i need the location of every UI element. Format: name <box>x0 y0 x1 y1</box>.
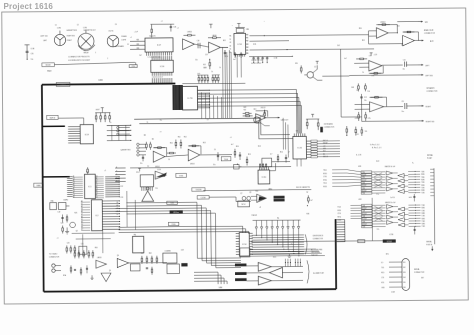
wire U9a inputs <box>369 30 377 32</box>
svg-text:KB1: KB1 <box>136 39 139 41</box>
svg-text:TXD0: TXD0 <box>323 170 327 172</box>
svg-text:10k: 10k <box>367 91 370 93</box>
svg-text:LM324: LM324 <box>190 163 195 165</box>
svg-text:1k: 1k <box>110 122 112 124</box>
transistor Q4 <box>70 222 76 228</box>
svg-text:C3: C3 <box>115 24 117 26</box>
svg-text:T?: T? <box>160 132 162 134</box>
buffer triangle B2 <box>269 267 282 278</box>
ic IC7B pin comb <box>173 85 183 110</box>
svg-text:NC: NC <box>323 154 325 156</box>
wire cassette verticals <box>282 118 284 150</box>
wire long net A <box>134 118 290 136</box>
svg-text:T2005: T2005 <box>224 159 228 161</box>
wire analogue net AUX <box>250 49 374 50</box>
wire analogue net mid <box>249 40 288 42</box>
ic IC1 CPU <box>84 174 95 198</box>
svg-text:RIGHT SIG: RIGHT SIG <box>67 35 76 37</box>
svg-text:LIGHT: LIGHT <box>121 39 126 41</box>
svg-text:R, Pins 2, 4, 6: R, Pins 2, 4, 6 <box>372 147 382 149</box>
svg-text:C39: C39 <box>225 56 228 58</box>
wire U9b input <box>369 43 403 45</box>
svg-text:D2: D2 <box>96 192 98 194</box>
capacitor C12 <box>360 94 362 102</box>
wire U9a feedback <box>376 24 397 33</box>
svg-text:R25: R25 <box>74 212 77 214</box>
wire serial right nets <box>408 170 420 172</box>
transistor Q2 circuit <box>300 65 302 73</box>
wire inter-block vertical <box>371 198 373 241</box>
svg-text:CONNECTOR: CONNECTOR <box>414 272 425 274</box>
svg-text:+ 1uF: + 1uF <box>134 31 138 33</box>
svg-text:R12: R12 <box>184 136 187 138</box>
svg-text:IC10: IC10 <box>136 172 139 174</box>
node AT05 label dark <box>170 210 183 213</box>
svg-text:C37: C37 <box>205 54 208 56</box>
connector J1 left right <box>54 34 65 45</box>
resistor row above IC30 <box>259 163 260 168</box>
wire W3 out <box>129 262 167 264</box>
svg-text:R2B5: R2B5 <box>421 190 425 192</box>
wire U5 feedback <box>256 111 268 117</box>
svg-text:RST: RST <box>323 151 326 153</box>
svg-text:4011: 4011 <box>358 166 361 168</box>
wire AUX output with arrow <box>418 40 424 42</box>
wire video verticals <box>126 191 128 227</box>
svg-text:CONNECTOR: CONNECTOR <box>324 127 335 129</box>
svg-text:T1B5: T1B5 <box>421 171 424 173</box>
svg-text:RXD0: RXD0 <box>323 173 327 175</box>
wire left audio out <box>382 64 403 66</box>
resistor R26 top <box>87 167 89 174</box>
svg-text:D3: D3 <box>73 194 75 196</box>
ic IC7B <box>182 86 197 110</box>
wire U9c feedback below <box>369 66 383 74</box>
svg-text:10k: 10k <box>365 131 368 133</box>
svg-text:C4: C4 <box>168 159 170 161</box>
svg-text:LM324: LM324 <box>256 123 261 125</box>
svg-text:T2B5: T2B5 <box>421 187 424 189</box>
svg-text:CS: CS <box>116 208 118 210</box>
svg-text:R18: R18 <box>258 146 261 148</box>
wire IC30 right <box>270 163 276 171</box>
svg-text:IC.7B: IC.7B <box>187 98 193 100</box>
wire C-U2B6 to comparator <box>209 197 251 202</box>
svg-text:CK: CK <box>230 42 232 44</box>
svg-text:LM318: LM318 <box>97 257 102 259</box>
svg-text:DCD1: DCD1 <box>338 220 342 222</box>
svg-text:4u7: 4u7 <box>233 59 236 61</box>
capacitor C40 <box>234 52 236 58</box>
svg-text:CONNECTOR: CONNECTOR <box>424 33 436 35</box>
resistor R11 <box>175 140 177 149</box>
svg-text:LEFT: LEFT <box>425 65 429 67</box>
capacitor C20 <box>62 215 64 223</box>
svg-text:C1: C1 <box>55 25 57 27</box>
node IC16 pin label boxes <box>311 140 317 142</box>
svg-text:+5: +5 <box>104 170 106 172</box>
ic IC19 <box>80 125 93 144</box>
capacitor row C30-C33 <box>249 55 292 57</box>
ic serial driver input labels <box>361 171 372 173</box>
svg-text:1k: 1k <box>211 71 213 73</box>
svg-text:4u7 4u7 4u7 4u7: 4u7 4u7 4u7 4u7 <box>251 63 261 65</box>
svg-text:10u: 10u <box>140 163 143 165</box>
node SC7002 label <box>383 239 396 242</box>
wire IC7B right fan with dots <box>197 90 210 109</box>
svg-text:C2: C2 <box>77 24 79 26</box>
node DATA label <box>34 183 44 187</box>
svg-text:T1B5: T1B5 <box>422 215 425 217</box>
svg-text:Project 1616: Project 1616 <box>4 2 54 11</box>
svg-text:S/BUS: S/BUS <box>61 84 67 86</box>
svg-text:C1+: C1+ <box>376 194 379 196</box>
capacitor C5 <box>217 152 219 160</box>
svg-text:R8: R8 <box>144 135 146 137</box>
svg-text:LEFT SIG: LEFT SIG <box>40 36 48 38</box>
wire bus drops to cassette nets <box>200 92 202 118</box>
svg-text:+: + <box>264 21 265 23</box>
svg-text:R2B5: R2B5 <box>422 223 426 225</box>
svg-text:D-USER PORT: D-USER PORT <box>313 273 324 275</box>
wire C394 stub <box>135 62 137 64</box>
svg-text:R70: R70 <box>386 254 389 256</box>
resistor R16 <box>277 154 279 162</box>
svg-text:C24: C24 <box>67 242 70 244</box>
svg-text:R1B5: R1B5 <box>422 218 426 220</box>
svg-text:R2B5: R2B5 <box>421 179 425 181</box>
resistor R20 <box>306 119 308 129</box>
svg-text:VS: VS <box>116 202 118 204</box>
capacitor C38 coupling <box>197 43 199 48</box>
svg-text:SK3: SK3 <box>403 272 406 274</box>
node S/BUS label <box>56 82 70 86</box>
svg-text:T2335: T2335 <box>179 175 183 177</box>
svg-text:Q6: Q6 <box>117 255 119 257</box>
svg-text:CENTRONICS: CENTRONICS <box>313 235 324 237</box>
resistor R44 <box>365 83 367 91</box>
svg-text:4u7: 4u7 <box>344 58 347 60</box>
wire A1 junctions <box>194 44 208 47</box>
svg-text:SK7: SK7 <box>421 277 424 279</box>
svg-text:LM324: LM324 <box>155 166 160 168</box>
svg-text:LOOKING INTO SOCKET: LOOKING INTO SOCKET <box>68 60 91 62</box>
svg-text:C4: C4 <box>147 166 149 168</box>
resistor R46 <box>365 112 367 121</box>
svg-text:RTS1: RTS1 <box>338 216 342 218</box>
ic IC31 <box>234 33 246 54</box>
op-amp U3b <box>188 149 200 161</box>
resistor R45 <box>358 112 360 121</box>
node T4805 label <box>167 201 178 204</box>
wire U3a feedback <box>153 148 167 157</box>
svg-text:10u: 10u <box>402 68 405 70</box>
svg-text:SK4: SK4 <box>403 277 406 279</box>
svg-text:GROUNDED: GROUNDED <box>311 252 321 254</box>
svg-text:1k: 1k <box>219 67 221 69</box>
svg-text:+: + <box>232 25 233 27</box>
ic PAL box <box>132 236 143 253</box>
svg-text:220: 220 <box>204 67 207 69</box>
capacitor C41 <box>240 52 242 58</box>
svg-text:R14: R14 <box>236 146 239 148</box>
svg-text:R31: R31 <box>223 40 226 42</box>
svg-text:R61: R61 <box>141 253 144 255</box>
svg-text:R50: R50 <box>359 28 362 30</box>
ic IC16 <box>293 136 307 159</box>
svg-text:T4805: T4805 <box>170 203 174 205</box>
svg-text:4x14: 4x14 <box>409 197 412 199</box>
svg-text:T1B5: T1B5 <box>421 193 424 195</box>
bracket user port <box>307 260 309 283</box>
svg-text:LM386: LM386 <box>212 35 217 37</box>
svg-text:ANALOGUE: ANALOGUE <box>424 29 434 32</box>
op-amp comparator U11 <box>257 194 267 202</box>
connector cassette pins <box>118 126 129 128</box>
diode matrix columns <box>255 220 257 226</box>
op-amp W3 <box>117 258 129 267</box>
svg-text:T2B5: T2B5 <box>422 221 425 223</box>
svg-text:MODE: MODE <box>46 65 52 67</box>
svg-text:D0: D0 <box>96 188 98 190</box>
svg-text:C30 C31 C32 C33: C30 C31 C32 C33 <box>251 60 262 62</box>
svg-text:10u: 10u <box>402 111 405 113</box>
capacitor C39 <box>224 50 226 57</box>
connector J3 keyboard <box>107 35 119 47</box>
op-amp U9c <box>369 60 382 71</box>
ic serial driver input labels <box>361 204 372 206</box>
connector video jacks <box>52 264 55 267</box>
svg-text:D4: D4 <box>81 208 83 210</box>
resistor R32 <box>308 195 310 203</box>
wire IC1 right nets <box>105 176 120 197</box>
svg-text:4011: 4011 <box>358 199 361 201</box>
svg-text:GND: GND <box>381 287 384 289</box>
resistor R9 <box>150 142 152 150</box>
wire speaker vertical <box>340 49 343 117</box>
svg-text:R26: R26 <box>86 171 89 173</box>
node C-U2B6 label <box>197 196 209 200</box>
wire rs232 nets into blocks <box>347 170 361 172</box>
svg-text:10u: 10u <box>155 188 158 190</box>
wire IC17 left pins <box>130 41 145 49</box>
svg-text:IC?: IC? <box>270 154 272 156</box>
ic IC14 <box>239 232 249 256</box>
svg-text:D0: D0 <box>96 176 98 178</box>
wire video lower nets <box>119 226 243 234</box>
wire IC16 bottom <box>296 159 298 166</box>
wire RIGHT arrow <box>407 105 419 107</box>
capacitor C3 <box>142 155 144 161</box>
svg-text:LM324: LM324 <box>187 31 192 33</box>
capacitor serial C21 <box>413 194 415 201</box>
svg-text:RIGHT: RIGHT <box>426 106 431 108</box>
wire A2 output <box>220 46 228 48</box>
svg-text:OUT B: OUT B <box>108 31 113 33</box>
wire LEFT SIG arrow <box>349 74 418 77</box>
svg-text:C23: C23 <box>120 197 123 199</box>
svg-text:Q8: Q8 <box>249 192 251 194</box>
svg-text:R19: R19 <box>254 109 257 111</box>
svg-text:CONNECTOR: CONNECTOR <box>313 238 324 240</box>
svg-text:C22: C22 <box>120 186 123 188</box>
node C394 label <box>129 65 137 68</box>
wire cpu vertical drops <box>82 234 84 256</box>
wire U3b feedback <box>188 146 201 155</box>
svg-text:74LS273: 74LS273 <box>149 36 156 38</box>
wire cpu bottom nets <box>72 232 115 234</box>
wire U3a to U3b <box>165 155 188 157</box>
svg-text:RTS: RTS <box>381 282 384 284</box>
svg-text:POINT: POINT <box>427 158 432 160</box>
ic serial driver gates <box>386 171 393 175</box>
svg-text:C38: C38 <box>197 40 200 42</box>
wire RIGHT SIG net <box>362 120 419 122</box>
svg-text:4x1k: 4x1k <box>197 73 200 75</box>
wire cassette out arrow <box>266 117 276 119</box>
svg-text:TX: TX <box>229 39 231 41</box>
svg-text:RXD1: RXD1 <box>337 210 341 212</box>
transistor T5 <box>242 196 246 200</box>
svg-text:D4: D4 <box>81 224 83 226</box>
svg-text:R62: R62 <box>149 253 152 255</box>
supply tick T2 <box>238 23 240 27</box>
svg-text:CTS1: CTS1 <box>338 213 342 215</box>
resistor R14 <box>234 149 236 158</box>
wire long net C <box>130 167 291 168</box>
ground G2 <box>66 227 68 231</box>
resistor R10 <box>167 152 176 154</box>
wire rail +5 keyboard <box>306 118 319 120</box>
svg-text:4u7: 4u7 <box>231 144 234 146</box>
transistor V3 buffer <box>142 191 154 202</box>
svg-text:RX: RX <box>229 36 231 38</box>
transistor W2 <box>101 273 111 282</box>
svg-text:LEFT SIG: LEFT SIG <box>425 75 433 77</box>
capacitor C36 <box>170 24 172 31</box>
crystal Y2 on top <box>236 28 244 32</box>
ic subcarrier box <box>167 264 179 274</box>
resistor R30 feedback <box>183 34 195 36</box>
svg-text:To Pins 3, 4, 6: To Pins 3, 4, 6 <box>370 144 380 146</box>
wire thick bottom <box>44 289 336 292</box>
video caps cluster <box>66 245 68 253</box>
ic serial driver gates <box>386 205 393 209</box>
svg-text:D2: D2 <box>96 180 98 182</box>
ic IC18 <box>151 60 174 72</box>
wire serial port arrow down <box>431 246 433 249</box>
svg-text:R22: R22 <box>244 107 247 109</box>
svg-text:SK6: SK6 <box>403 287 406 289</box>
wire audio thin net <box>182 82 245 85</box>
svg-text:4.7k: 4.7k <box>368 118 371 120</box>
op-amp U3a <box>153 151 165 162</box>
wire thick branch to IC19 <box>42 125 65 127</box>
wire IC31 down nets <box>236 57 238 78</box>
wire thick bus top S/BUS <box>42 84 175 85</box>
svg-text:R43: R43 <box>351 87 354 89</box>
wire crossing nets <box>374 173 382 177</box>
svg-text:T1B5: T1B5 <box>422 226 425 228</box>
svg-text:10k: 10k <box>401 45 404 47</box>
svg-text:4.43: 4.43 <box>181 249 184 251</box>
svg-text:D5: D5 <box>96 197 98 199</box>
svg-text:D6: D6 <box>73 186 75 188</box>
wire grid IC21 area <box>107 125 132 142</box>
svg-text:R35: R35 <box>295 63 298 65</box>
svg-text:KB CLK: KB CLK <box>323 140 328 142</box>
connector centronics comb <box>337 220 345 242</box>
connector cassette jack <box>137 143 139 145</box>
node TAPE B label <box>47 115 59 119</box>
wire U9b feedback <box>403 32 419 41</box>
svg-text:C394: C394 <box>131 66 135 68</box>
node TCK32B6 label <box>192 188 205 192</box>
resistor bank video <box>74 250 76 258</box>
op-amp A2 <box>209 42 221 53</box>
svg-text:R1B5: R1B5 <box>421 185 425 187</box>
svg-text:10u: 10u <box>31 59 34 61</box>
svg-text:KB3: KB3 <box>137 48 140 50</box>
resistor R37 <box>209 59 211 69</box>
ic IC2 ROM <box>91 200 102 231</box>
svg-text:SPEAKER: SPEAKER <box>426 87 435 90</box>
svg-text:D1: D1 <box>230 49 232 51</box>
svg-text:D1: D1 <box>81 203 83 205</box>
resistor R21 <box>317 119 319 130</box>
wire MIC output with arrow <box>388 32 397 34</box>
op-amp U9a <box>376 28 388 39</box>
svg-text:R16: R16 <box>280 152 283 154</box>
svg-text:SK2: SK2 <box>403 267 406 269</box>
svg-text:+5: +5 <box>298 252 300 254</box>
svg-text:1uF 16: 1uF 16 <box>390 197 395 199</box>
svg-text:TCK32B6: TCK32B6 <box>195 189 201 191</box>
capacitor C10 <box>403 62 405 67</box>
svg-text:R1B5: R1B5 <box>421 174 425 176</box>
svg-text:Q4: Q4 <box>76 230 78 232</box>
ic XTAL2 3.58 <box>163 253 177 263</box>
svg-text:RIGHT: RIGHT <box>67 40 72 42</box>
svg-text:D3: D3 <box>73 182 75 184</box>
svg-text:4.7k: 4.7k <box>372 75 375 77</box>
svg-text:4MHz: 4MHz <box>268 189 272 191</box>
svg-text:SK1: SK1 <box>403 262 406 264</box>
svg-text:1uF: 1uF <box>139 55 142 57</box>
resistor bank RN3 <box>95 112 110 114</box>
wire comparator inputs <box>251 195 257 197</box>
svg-text:C10: C10 <box>403 60 406 62</box>
video mid parts <box>141 256 143 264</box>
svg-text:3.58MHZ: 3.58MHZ <box>165 251 171 253</box>
ground matrix <box>288 254 290 256</box>
svg-text:C2+: C2+ <box>377 229 380 231</box>
video small parts <box>70 265 72 273</box>
svg-text:SERIAL: SERIAL <box>427 154 433 157</box>
resistor R24 <box>355 127 357 136</box>
connector serial DIN <box>402 259 410 291</box>
svg-text:V+: V+ <box>412 162 414 164</box>
svg-text:RTS0: RTS0 <box>323 180 327 182</box>
wire cassette out net <box>200 154 232 156</box>
capacitor C14 dark <box>320 127 323 133</box>
resistor bank RN1 on bus <box>197 74 208 76</box>
op-amp U9d <box>370 102 384 112</box>
ground C35 with capacitor <box>26 45 28 60</box>
wire long net B <box>139 122 293 140</box>
svg-text:KB CLK: KB CLK <box>323 156 328 158</box>
svg-text:4.7k: 4.7k <box>355 118 358 120</box>
